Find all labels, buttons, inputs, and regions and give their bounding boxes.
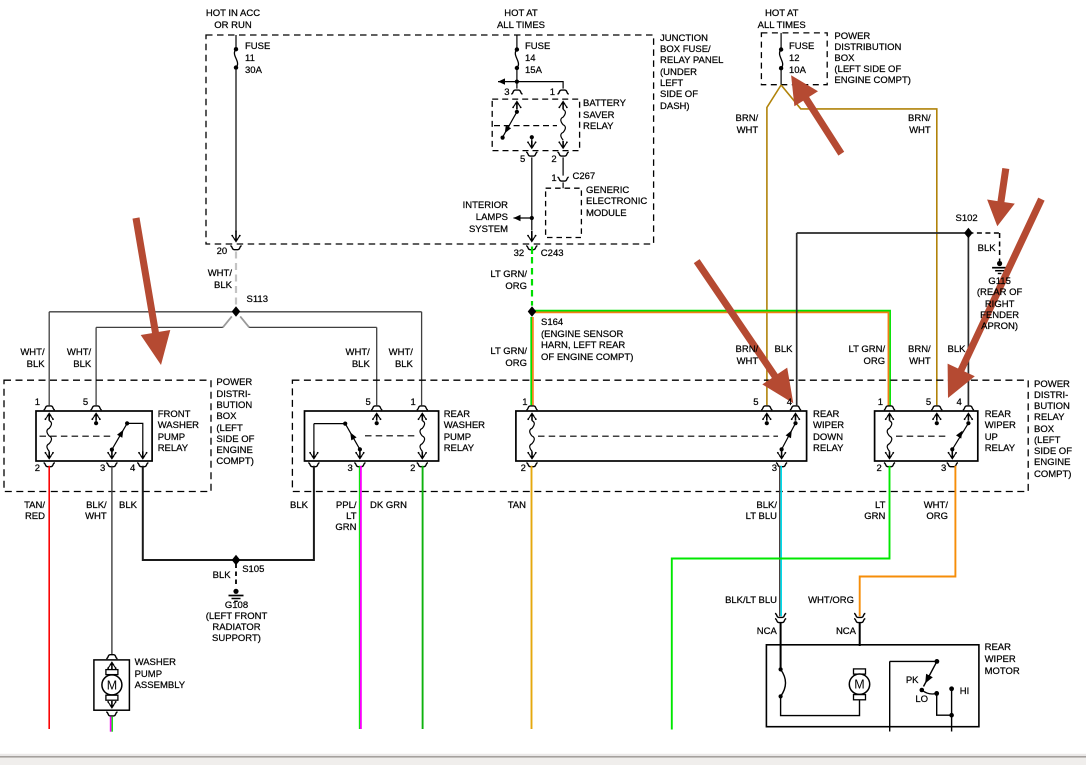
svg-text:M: M	[854, 678, 864, 692]
svg-text:M: M	[107, 678, 117, 692]
